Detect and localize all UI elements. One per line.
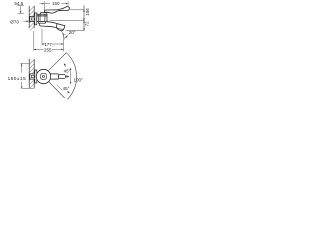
svg-text:Ø70: Ø70 xyxy=(10,19,19,24)
spout outlet cup with aerator (side view) xyxy=(56,24,64,31)
svg-text:72: 72 xyxy=(85,21,90,27)
svg-text:45°: 45° xyxy=(64,68,71,73)
cartridge neck (side view) xyxy=(41,13,47,15)
svg-text:150: 150 xyxy=(52,1,60,6)
svg-text:106: 106 xyxy=(85,8,90,16)
dimension: 150 (top) xyxy=(40,1,68,9)
dimension: 177 (lower) xyxy=(42,29,64,52)
wall band (side view) xyxy=(28,6,30,28)
svg-text:54,5: 54,5 xyxy=(14,1,23,6)
escutcheon edge-on (plan view) xyxy=(35,70,37,83)
wall hatching (side view) xyxy=(29,6,34,30)
dimension: 255 (lower) xyxy=(34,31,64,51)
spout nib / aerator (plan view) xyxy=(59,75,66,79)
svg-text:255: 255 xyxy=(44,47,52,52)
svg-text:20°: 20° xyxy=(69,30,76,35)
flow arrow at spout tip (plan view) xyxy=(66,75,69,78)
union nut through wall (side view) xyxy=(30,16,36,21)
swivel fan: lower 45° line (plan view) xyxy=(49,82,65,98)
svg-text:100°: 100° xyxy=(74,78,84,83)
label 100° with double arrow xyxy=(70,69,72,82)
dimension: 150±15 (plan view left) xyxy=(20,63,34,88)
wall hatching (plan view) xyxy=(29,60,34,88)
svg-text:150±15: 150±15 xyxy=(8,76,27,81)
mixer body (side view) xyxy=(37,14,47,22)
spout retainer ring under body (side view) xyxy=(38,22,45,24)
wall band (plan view) xyxy=(28,59,30,88)
swivel fan: upper 45° line (plan view) xyxy=(49,53,67,71)
svg-text:177: 177 xyxy=(44,42,52,47)
svg-text:45°: 45° xyxy=(63,86,70,91)
swivel fan: 100° arc (plan view) xyxy=(66,53,76,100)
dimension: 106 / 72 (right side) xyxy=(50,5,85,30)
dimension: 20° angle at outlet xyxy=(62,31,65,40)
lever handle (side view) xyxy=(45,7,70,14)
spout elbow under body (side view) xyxy=(39,23,46,26)
union nut through wall (plan view) xyxy=(30,74,36,79)
body circle (plan view) xyxy=(36,69,50,83)
spout tube (side view) xyxy=(47,22,65,26)
dimension: 54,5 (top left) xyxy=(18,6,24,14)
spout tube (plan view) xyxy=(50,73,58,75)
escutcheon edge-on (side view) xyxy=(35,13,37,25)
